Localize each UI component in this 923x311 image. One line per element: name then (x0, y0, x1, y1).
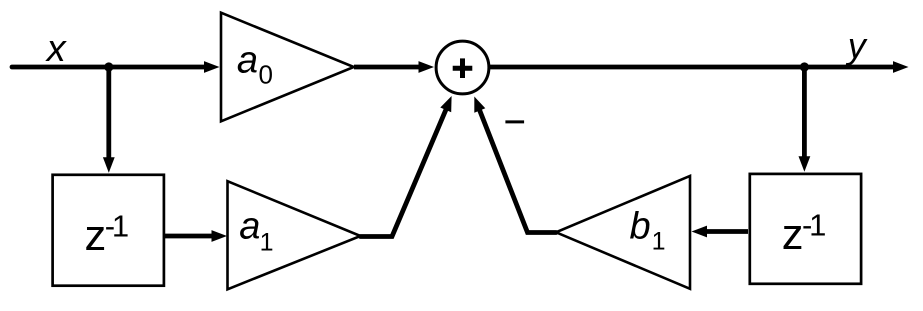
svg-text:b: b (630, 205, 651, 247)
svg-text:z: z (782, 211, 804, 259)
svg-text:1: 1 (809, 208, 826, 243)
svg-text:z: z (85, 212, 107, 260)
svg-text:y: y (845, 25, 868, 66)
svg-text:1: 1 (652, 228, 666, 256)
svg-text:1: 1 (260, 229, 274, 257)
svg-text:a: a (237, 39, 258, 81)
svg-text:0: 0 (259, 60, 273, 90)
svg-text:a: a (239, 205, 260, 247)
svg-text:1: 1 (112, 209, 129, 244)
svg-text:x: x (45, 28, 68, 70)
